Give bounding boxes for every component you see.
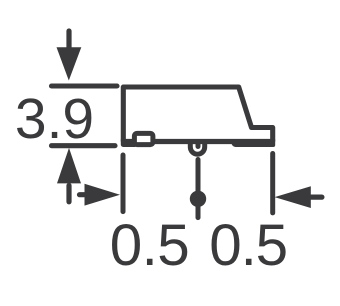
center dimension line bbox=[196, 160, 201, 218]
svg-text:0.5: 0.5 bbox=[110, 213, 189, 278]
bottom extension line of 3.9 bbox=[52, 143, 116, 148]
down arrowhead (3.9 top) bbox=[57, 47, 82, 80]
svg-text:3.9: 3.9 bbox=[15, 87, 94, 151]
center dimension dot bbox=[190, 191, 206, 207]
left terminal bump outline bbox=[134, 133, 153, 144]
right-pointing arrowhead (0.5 left) bbox=[85, 184, 121, 206]
right-pointing arrow shaft (0.5 left) bbox=[80, 192, 88, 197]
left-pointing arrow shaft (0.5 right) bbox=[311, 195, 322, 200]
svg-text:0.5: 0.5 bbox=[209, 213, 287, 278]
left terminal pad bbox=[121, 139, 136, 147]
component body bottom line bbox=[123, 139, 272, 144]
right terminal pad bbox=[232, 140, 276, 148]
component body outline bbox=[123, 87, 272, 142]
center terminal tick bbox=[196, 143, 201, 147]
right extension line (0.5 right) bbox=[270, 154, 275, 213]
up arrow shaft (3.9 bottom) bbox=[66, 186, 71, 202]
center terminal U hook bbox=[190, 142, 204, 155]
down arrow shaft (3.9 top) bbox=[66, 31, 71, 50]
up arrowhead (3.9 bottom) bbox=[57, 148, 81, 184]
left extension line (0.5 left) bbox=[121, 155, 126, 212]
left-pointing arrowhead (0.5 right) bbox=[275, 186, 311, 208]
top extension line of 3.9 bbox=[52, 83, 118, 88]
